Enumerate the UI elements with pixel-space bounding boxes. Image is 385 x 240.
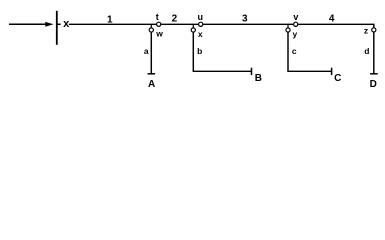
svg-text:1: 1	[107, 14, 113, 25]
svg-text:b: b	[197, 46, 202, 56]
input arrow	[9, 22, 54, 27]
svg-text:x: x	[198, 29, 203, 39]
wire b	[193, 32, 251, 71]
node t	[157, 22, 161, 26]
wire a	[150, 32, 152, 74]
svg-text:d: d	[364, 46, 369, 56]
node z	[372, 28, 376, 32]
node x lower	[191, 28, 195, 32]
svg-text:u: u	[198, 12, 204, 22]
svg-text:t: t	[156, 12, 159, 22]
svg-text:C: C	[334, 73, 341, 84]
wire link 1	[69, 23, 157, 25]
node w	[149, 28, 153, 32]
node u	[199, 22, 203, 26]
wire stub from bar to node x	[57, 23, 60, 25]
node v	[294, 22, 298, 26]
svg-text:y: y	[293, 29, 298, 39]
wire link 4 to right corner	[298, 24, 374, 27]
crosspoint bar	[56, 11, 58, 45]
wire link 2	[161, 23, 198, 25]
svg-text:a: a	[144, 46, 149, 56]
svg-text:B: B	[255, 73, 262, 84]
terminal D bar	[370, 73, 378, 75]
svg-text:A: A	[148, 79, 155, 90]
terminal C bar	[331, 68, 333, 75]
terminal A bar	[148, 73, 156, 75]
node y	[286, 28, 290, 32]
svg-text:c: c	[292, 46, 297, 56]
wire c	[288, 32, 332, 71]
svg-text:2: 2	[172, 14, 178, 25]
svg-text:3: 3	[242, 14, 248, 25]
stub to node y	[287, 25, 289, 28]
wire d	[373, 32, 375, 74]
wire link 3	[203, 23, 293, 25]
terminal B bar	[251, 68, 253, 75]
svg-text:D: D	[370, 79, 377, 90]
svg-text:w: w	[155, 29, 163, 39]
svg-text:z: z	[364, 25, 368, 35]
stub to node x lower	[192, 25, 194, 28]
svg-text:4: 4	[329, 14, 335, 25]
svg-text:v: v	[293, 12, 298, 22]
stub to node w	[150, 25, 152, 28]
